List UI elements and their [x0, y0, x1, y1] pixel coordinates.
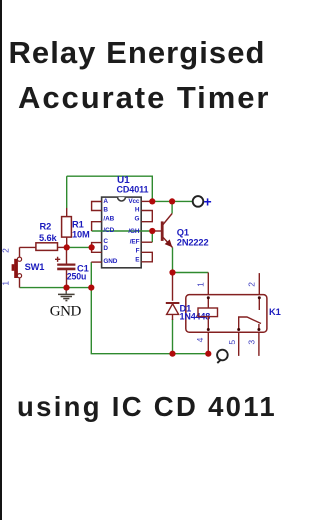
- svg-text:3: 3: [246, 340, 256, 345]
- svg-text:250u: 250u: [67, 272, 86, 282]
- svg-text:SW1: SW1: [25, 262, 45, 272]
- svg-text:10M: 10M: [72, 230, 90, 240]
- svg-text:5.6k: 5.6k: [39, 233, 57, 243]
- svg-text:GND: GND: [103, 258, 117, 265]
- svg-text:F: F: [136, 247, 140, 254]
- svg-text:/GH: /GH: [128, 228, 140, 235]
- svg-text:/CD: /CD: [103, 227, 114, 234]
- svg-text:1: 1: [1, 281, 11, 286]
- svg-text:A: A: [103, 198, 108, 205]
- svg-text:2N2222: 2N2222: [177, 238, 209, 248]
- svg-text:1: 1: [196, 282, 206, 287]
- svg-text:/EF: /EF: [130, 238, 140, 245]
- svg-text:/AB: /AB: [103, 216, 114, 223]
- svg-text:4: 4: [195, 337, 205, 342]
- svg-text:5: 5: [227, 340, 237, 345]
- svg-text:Vcc: Vcc: [128, 198, 140, 205]
- svg-text:2: 2: [1, 248, 11, 253]
- svg-text:G: G: [135, 216, 140, 223]
- svg-text:B: B: [103, 207, 108, 214]
- svg-text:2: 2: [246, 282, 256, 287]
- svg-text:D: D: [103, 245, 108, 252]
- svg-text:CD4011: CD4011: [117, 185, 149, 195]
- svg-text:H: H: [135, 207, 140, 214]
- svg-text:+: +: [204, 194, 212, 210]
- svg-text:GND: GND: [50, 304, 82, 320]
- svg-text:R2: R2: [40, 222, 52, 232]
- svg-text:R1: R1: [72, 220, 84, 230]
- svg-text:K1: K1: [269, 307, 281, 317]
- svg-text:Q1: Q1: [177, 228, 189, 238]
